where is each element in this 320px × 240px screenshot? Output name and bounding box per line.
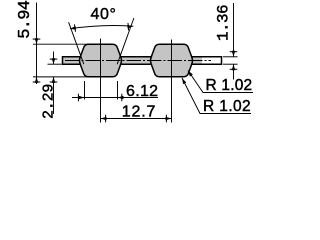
svg-text:R 1.02: R 1.02 — [206, 77, 253, 94]
2.29 upper arrow (down, tip at 63.5) — [53, 52, 55, 65]
tooth T2 center line — [171, 40, 173, 123]
svg-text:12.7: 12.7 — [122, 104, 156, 121]
5.94 top extension line (tooth tip level) — [33, 43, 89, 45]
5.94 dimension line (outside arrows) — [36, 3, 38, 85]
6.12 left extension line — [84, 81, 86, 100]
6.12 right extension line — [117, 81, 119, 100]
6.12 dimension line — [72, 97, 158, 99]
svg-text:R 1.02: R 1.02 — [203, 98, 251, 115]
belt horizontal center line (dash-dot) — [65, 60, 211, 62]
2.29 extension line at web bottom — [48, 63, 62, 65]
5.94 bottom extension line (tooth bottom level) — [33, 76, 89, 78]
tooth T1 center line — [100, 39, 102, 123]
2.29 lower arrow (up, tip at 76.1) with tail — [53, 77, 55, 114]
svg-text:5.94: 5.94 — [16, 0, 35, 39]
1.36 dimension upper arrow (down, tip at 56) with tail — [233, 3, 235, 57]
tooth T2 (double-sided tooth pair, gray) — [151, 44, 193, 77]
12.7 left inside arrow (tip at 100.5) — [101, 115, 107, 123]
12.7 dimension line — [101, 118, 172, 120]
6.12 left outside arrow (tip at 84.5 pointing right) — [78, 94, 85, 102]
svg-text:6.12: 6.12 — [126, 83, 158, 100]
40deg left extension line (lower-left flank extended up) — [69, 22, 84, 64]
40deg arc right arrow — [127, 22, 134, 30]
1.36 dimension lower arrow (up, tip at 63.5) with tail — [233, 64, 235, 79]
svg-text:40°: 40° — [91, 6, 117, 23]
40deg right extension line (lower-right flank extended up) — [117, 18, 134, 64]
R 1.02 leader A (root fillet): arrow + slant + tail — [188, 71, 253, 93]
5.94 bottom arrow (up, tip at 76.1) — [33, 77, 41, 83]
6.12 right outside arrow (tip at 117.5 pointing left) — [118, 94, 124, 102]
svg-text:2.29: 2.29 — [40, 84, 57, 119]
1.36 extension line at web top (right) — [223, 56, 238, 58]
1.36 extension line at web bottom (right) — [223, 63, 238, 65]
40deg dimension arc — [70, 26, 133, 29]
12.7 right inside arrow (tip at 170.5) — [166, 115, 172, 123]
40deg arc left arrow — [69, 24, 76, 32]
5.94 top arrow (down, tip at 43.5) — [33, 38, 41, 44]
R 1.02 leader B (tip radius): arrow + slant + tail — [182, 78, 251, 114]
belt web strip (gray band) — [63, 57, 203, 64]
svg-text:1.36: 1.36 — [215, 5, 233, 41]
tooth T1 (double-sided tooth pair, gray) — [80, 44, 122, 77]
